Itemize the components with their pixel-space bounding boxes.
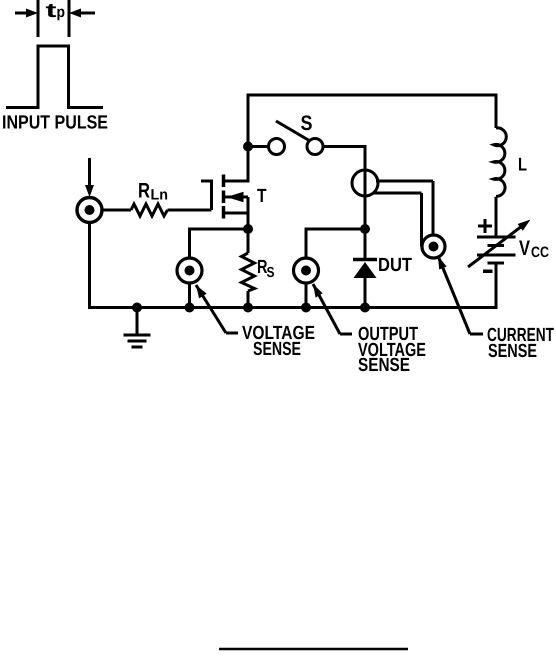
label DUT [378,255,412,276]
inductor L [494,95,507,237]
transistor Q1 source lead [224,212,249,215]
leader arrow voltage sense [196,285,238,333]
label VOLTAGE SENSE [242,323,315,360]
transistor Q1 drain lead [224,180,249,183]
current transformer pickup loop [352,170,433,247]
label VCC [519,237,549,261]
wire voltage sense to rail [188,283,191,308]
svg-text:T: T [257,186,267,207]
input pulse dimension extension line left [37,0,40,37]
battery variable arrow [468,220,531,268]
wire node to output sense branch [306,229,365,258]
svg-text:S: S [301,112,313,135]
wire switch to current transformer branch [323,147,365,230]
bottom rule [219,648,408,651]
svg-text:R: R [138,180,150,203]
node output sense bottom [301,303,311,313]
wire drain vertical [247,95,250,183]
dimension arrow right [69,9,95,18]
svg-text:Ln: Ln [151,187,169,204]
svg-text:V: V [519,237,530,260]
node source/RS [243,224,253,234]
resistor RS [242,229,255,308]
label INPUT PULSE [2,113,108,134]
switch S contact left [269,139,285,155]
transistor Q1 gate bar [201,180,212,211]
svg-text:DUT: DUT [378,255,412,276]
node ground [132,303,142,313]
transistor Q1 channel segments [222,175,226,219]
svg-text:CC: CC [531,244,549,261]
leader arrow output voltage sense [313,284,352,334]
current sense connector [422,235,445,258]
wire source vertical [247,197,250,229]
label minus [483,270,493,274]
wire to switch contact [248,145,269,148]
ground [124,308,151,348]
label OUTPUT VOLTAGE SENSE [358,324,426,376]
diode DUT [353,229,377,308]
node voltage sense [185,303,195,313]
input terminal connector [77,198,102,223]
svg-text:S: S [267,265,275,281]
bottom rail [90,222,498,308]
svg-text:L: L [518,154,527,175]
svg-text:SENSE: SENSE [253,339,301,360]
input pulse waveform [6,46,103,108]
label tp [46,0,66,22]
wire input to RLn [101,209,131,212]
label T [257,186,267,207]
top rail [247,94,498,97]
label RLn [138,180,168,204]
svg-text:SENSE: SENSE [358,355,410,376]
voltage sense connector [177,258,202,283]
node DUT bottom [360,303,370,313]
label plus [478,219,492,233]
node switch tap [243,142,253,152]
label CURRENT SENSE [487,325,554,362]
transistor Q1 body lead with arrow [225,192,248,202]
wire RLn to gate [168,209,212,212]
label S [301,112,313,135]
input pulse dimension extension line right [68,0,71,37]
svg-text:INPUT PULSE: INPUT PULSE [2,113,108,134]
battery VCC [477,237,516,308]
node DUT top [360,224,370,234]
svg-text:SENSE: SENSE [488,341,537,362]
svg-text:p: p [57,4,66,21]
wire source node to voltage sense branch [190,229,249,258]
label L [518,154,527,175]
switch S contact right [307,139,323,155]
resistor RLn [131,204,168,216]
arrow into input terminal [85,158,94,197]
svg-text:t: t [46,0,58,22]
switch S arm [276,121,310,141]
dimension arrow left [15,9,38,18]
wire output sense to rail [305,283,308,308]
leader arrow current sense [438,256,483,334]
output voltage sense connector [294,258,319,283]
node RS bottom [243,303,253,313]
label RS [257,257,275,281]
